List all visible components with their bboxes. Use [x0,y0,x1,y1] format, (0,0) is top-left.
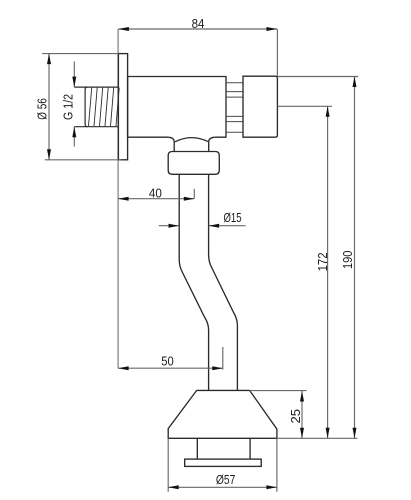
flush pipe [179,174,237,390]
svg-text:Ø57: Ø57 [216,472,236,487]
threaded inlet G1/2 [74,87,119,127]
svg-text:50: 50 [161,354,174,369]
bell lower cylinder [197,438,250,459]
wall plate [118,54,127,160]
svg-text:Ø 56: Ø 56 [34,98,49,120]
cartridge stem rings [226,83,243,133]
base flange [185,459,262,466]
shared baseline extension [277,437,358,439]
tailpiece neck [169,137,215,151]
coupling nut [168,152,219,175]
svg-text:Ø15: Ø15 [224,210,242,225]
dim 84 top [118,29,277,76]
dim Ø57 bottom [168,438,277,491]
dim 40 [118,189,194,199]
svg-text:25: 25 [288,409,303,424]
svg-text:G 1/2: G 1/2 [60,94,75,120]
dim Ø15 [159,225,246,227]
wall face line [117,29,119,368]
svg-text:40: 40 [149,186,162,201]
push button [243,76,277,137]
spreader bell [168,390,277,438]
dim 172 [277,106,332,438]
dim 25 [250,391,307,439]
svg-text:172: 172 [315,252,330,271]
svg-text:190: 190 [340,251,355,270]
dim 190 [277,77,358,439]
svg-text:84: 84 [192,16,205,31]
valve body [128,77,226,138]
dim Ø56 left [42,54,121,160]
dim 50 [118,347,223,370]
dim G1/2 [73,62,75,147]
